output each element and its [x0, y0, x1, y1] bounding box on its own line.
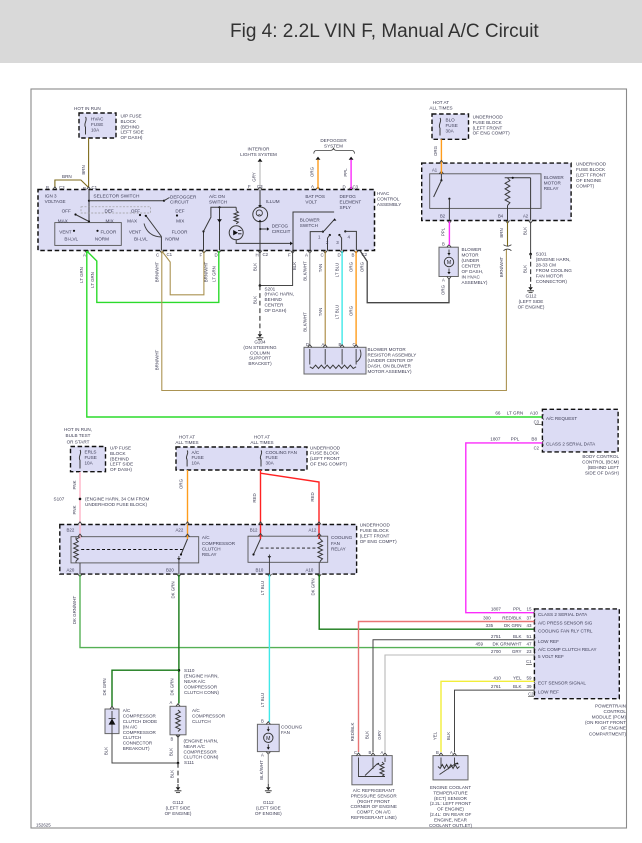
- svg-text:COMPRESSOR: COMPRESSOR: [192, 714, 226, 719]
- svg-text:PRESSURE SENSOR: PRESSURE SENSOR: [351, 793, 398, 798]
- svg-text:COMPRESSOR: COMPRESSOR: [123, 730, 157, 735]
- svg-text:(RIGHT FRONT: (RIGHT FRONT: [357, 799, 390, 804]
- svg-text:BRN: BRN: [499, 228, 504, 237]
- svg-text:BLK/WHT: BLK/WHT: [259, 760, 264, 780]
- svg-text:(2.4L: ON REAR OF: (2.4L: ON REAR OF: [430, 812, 472, 817]
- svg-text:G112: G112: [263, 800, 274, 805]
- svg-text:BLK: BLK: [169, 748, 174, 756]
- svg-text:BRN/WHT: BRN/WHT: [154, 349, 159, 370]
- svg-text:B2: B2: [440, 214, 446, 219]
- svg-text:TEMPERATURE: TEMPERATURE: [433, 790, 467, 795]
- svg-text:FUSE BLOCK: FUSE BLOCK: [576, 167, 606, 172]
- svg-text:A: A: [261, 753, 264, 758]
- svg-text:RED/BLK: RED/BLK: [350, 723, 355, 742]
- svg-text:152625: 152625: [36, 823, 51, 828]
- svg-text:459: 459: [475, 642, 483, 647]
- svg-text:10A: 10A: [192, 460, 201, 465]
- svg-text:MIX: MIX: [106, 218, 114, 223]
- svg-text:28-33 CM: 28-33 CM: [536, 263, 556, 268]
- svg-text:S110: S110: [184, 668, 195, 673]
- svg-text:PPL: PPL: [441, 227, 446, 236]
- svg-text:UNDERHOOD: UNDERHOOD: [310, 445, 341, 450]
- svg-text:HOT AT: HOT AT: [179, 435, 195, 440]
- svg-text:ORG: ORG: [360, 261, 365, 272]
- svg-text:CONNECTOR: CONNECTOR: [123, 741, 153, 746]
- svg-text:39: 39: [526, 684, 532, 689]
- svg-text:ALL TIMES: ALL TIMES: [175, 440, 198, 445]
- svg-text:MOTOR: MOTOR: [544, 181, 562, 186]
- svg-text:LT GRN: LT GRN: [79, 267, 84, 283]
- svg-text:ILLUM: ILLUM: [266, 199, 280, 204]
- svg-text:SIDE OF DASH): SIDE OF DASH): [585, 470, 619, 475]
- svg-text:DEFOGGER: DEFOGGER: [320, 138, 347, 143]
- svg-text:MOTOR: MOTOR: [462, 253, 480, 258]
- svg-text:COOLING: COOLING: [281, 724, 303, 729]
- svg-text:S101: S101: [536, 252, 547, 257]
- svg-text:HVAC: HVAC: [377, 191, 390, 196]
- svg-text:F: F: [288, 253, 291, 258]
- svg-text:PNK: PNK: [72, 505, 77, 514]
- svg-text:CLUTCH CONN): CLUTCH CONN): [184, 755, 219, 760]
- svg-text:M: M: [447, 260, 451, 266]
- svg-text:A: A: [83, 253, 86, 258]
- svg-text:B22: B22: [67, 528, 75, 533]
- svg-text:SWITCH: SWITCH: [300, 223, 318, 228]
- svg-text:BRN/WHT: BRN/WHT: [203, 261, 208, 282]
- svg-text:(LEFT FRONT: (LEFT FRONT: [310, 456, 340, 461]
- svg-text:A: A: [381, 750, 384, 755]
- svg-text:FUSE: FUSE: [91, 122, 103, 127]
- svg-text:ORG: ORG: [179, 478, 184, 489]
- svg-text:A: A: [305, 253, 308, 258]
- svg-text:(ENGINE HARN,: (ENGINE HARN,: [184, 739, 219, 744]
- svg-text:BLOCK: BLOCK: [110, 451, 127, 456]
- svg-text:YEL: YEL: [513, 675, 522, 680]
- svg-text:HOT IN RUN,: HOT IN RUN,: [64, 427, 92, 432]
- svg-text:M: M: [266, 736, 270, 742]
- svg-text:CLUTCH CONN): CLUTCH CONN): [184, 690, 219, 695]
- svg-text:LOW REF: LOW REF: [538, 689, 559, 694]
- svg-text:BLO: BLO: [446, 118, 456, 123]
- svg-text:OR START: OR START: [67, 439, 90, 444]
- svg-text:30A: 30A: [446, 128, 455, 133]
- svg-text:FUSE: FUSE: [446, 123, 458, 128]
- svg-text:ERLS: ERLS: [85, 450, 97, 455]
- svg-text:D: D: [343, 185, 346, 190]
- svg-text:LEFT SIDE: LEFT SIDE: [110, 462, 133, 467]
- svg-text:CIRCUIT: CIRCUIT: [272, 229, 291, 234]
- svg-text:TAN: TAN: [318, 264, 323, 272]
- svg-text:BRN/WHT: BRN/WHT: [154, 261, 159, 282]
- svg-text:PPL: PPL: [511, 436, 520, 441]
- svg-text:CORNER OF ENGINE: CORNER OF ENGINE: [350, 804, 396, 809]
- svg-text:ORG: ORG: [349, 305, 354, 316]
- svg-text:(ENGINE HARN,: (ENGINE HARN,: [184, 674, 219, 679]
- svg-text:HOT IN RUN: HOT IN RUN: [74, 106, 101, 111]
- svg-text:S111: S111: [184, 760, 194, 765]
- svg-text:BLK/WHT: BLK/WHT: [302, 312, 307, 332]
- svg-text:ALL TIMES: ALL TIMES: [250, 440, 273, 445]
- svg-text:A/C PRESS SENSOR SIG: A/C PRESS SENSOR SIG: [538, 621, 593, 626]
- svg-text:PNK: PNK: [72, 480, 77, 489]
- svg-text:UNDERHOOD: UNDERHOOD: [576, 162, 607, 167]
- svg-text:LT BLU: LT BLU: [260, 693, 265, 707]
- svg-text:S107: S107: [54, 497, 65, 502]
- svg-text:INTERIOR: INTERIOR: [248, 147, 271, 152]
- svg-text:OF ENG COMPT): OF ENG COMPT): [310, 462, 347, 467]
- svg-text:BLOCK: BLOCK: [121, 119, 138, 124]
- svg-text:ORG: ORG: [310, 166, 315, 177]
- svg-text:GRY: GRY: [252, 172, 257, 182]
- svg-text:(LEFT SIDE: (LEFT SIDE: [519, 299, 544, 304]
- svg-text:FAN: FAN: [331, 541, 340, 546]
- svg-text:(ON STEERING: (ON STEERING: [243, 345, 277, 350]
- svg-text:VOLTAGE: VOLTAGE: [45, 199, 66, 204]
- svg-text:BULB TEST: BULB TEST: [66, 433, 91, 438]
- svg-text:10A: 10A: [85, 460, 94, 465]
- svg-text:CLUTCH: CLUTCH: [123, 735, 142, 740]
- svg-text:BREAKOUT): BREAKOUT): [123, 746, 150, 751]
- svg-text:FUSE: FUSE: [266, 455, 278, 460]
- svg-text:ASSEMBLY: ASSEMBLY: [377, 202, 401, 207]
- svg-text:MIX: MIX: [176, 218, 184, 223]
- svg-text:REFRIGERANT LINE): REFRIGERANT LINE): [351, 815, 397, 820]
- svg-text:DEFOGGER: DEFOGGER: [170, 194, 197, 199]
- svg-text:LT BLU: LT BLU: [335, 305, 340, 319]
- svg-text:FUSE BLOCK: FUSE BLOCK: [473, 120, 503, 125]
- svg-text:2751: 2751: [491, 634, 502, 639]
- svg-text:COMPARTMENT): COMPARTMENT): [589, 731, 627, 736]
- svg-text:B: B: [352, 253, 355, 258]
- svg-text:(ENGINE HARN,: (ENGINE HARN,: [536, 257, 571, 262]
- svg-text:G112: G112: [173, 800, 184, 805]
- svg-text:B: B: [369, 750, 372, 755]
- svg-text:U/P FUSE: U/P FUSE: [121, 114, 142, 119]
- svg-text:RED: RED: [252, 493, 257, 502]
- svg-text:BLOWER: BLOWER: [544, 175, 565, 180]
- svg-text:GRY: GRY: [377, 730, 382, 740]
- svg-text:FUSE: FUSE: [85, 455, 97, 460]
- svg-text:SUPPORT: SUPPORT: [249, 356, 271, 361]
- svg-text:(IN A/C: (IN A/C: [123, 724, 138, 729]
- svg-text:B12: B12: [250, 528, 258, 533]
- svg-text:OF DASH,: OF DASH,: [462, 269, 484, 274]
- svg-text:B10: B10: [256, 567, 264, 572]
- svg-text:C: C: [353, 342, 356, 347]
- svg-text:G204: G204: [254, 340, 266, 345]
- svg-text:BLK: BLK: [104, 747, 109, 755]
- svg-text:(ON RIGHT FRONT: (ON RIGHT FRONT: [585, 720, 626, 725]
- svg-text:FUSE BLOCK: FUSE BLOCK: [360, 528, 390, 533]
- svg-text:ELEMENT: ELEMENT: [340, 199, 362, 204]
- svg-text:PPL: PPL: [343, 168, 348, 177]
- svg-text:OF ENGINE: OF ENGINE: [601, 726, 626, 731]
- svg-text:COOLING: COOLING: [331, 535, 353, 540]
- svg-text:10A: 10A: [91, 127, 100, 132]
- svg-text:A: A: [170, 700, 173, 705]
- svg-text:CLASS 2 SERIAL DATA: CLASS 2 SERIAL DATA: [538, 612, 588, 617]
- svg-text:OFF: OFF: [131, 208, 140, 213]
- svg-text:IN HVAC: IN HVAC: [462, 275, 481, 280]
- svg-text:OF DASH): OF DASH): [265, 308, 287, 313]
- svg-text:59: 59: [526, 675, 532, 680]
- svg-text:BLK: BLK: [292, 262, 297, 270]
- svg-text:ORG: ORG: [349, 261, 354, 272]
- svg-text:H: H: [256, 253, 259, 258]
- svg-text:IGN 3: IGN 3: [45, 193, 57, 198]
- svg-text:RELAY: RELAY: [331, 546, 346, 551]
- svg-text:BLK: BLK: [252, 263, 257, 271]
- svg-text:A/C: A/C: [202, 535, 210, 540]
- svg-text:A/C ON: A/C ON: [209, 194, 225, 199]
- svg-text:BRACKET): BRACKET): [248, 361, 272, 366]
- svg-text:MOTOR ASSEMBLY): MOTOR ASSEMBLY): [368, 369, 412, 374]
- svg-text:G112: G112: [526, 294, 537, 299]
- svg-text:ORG: ORG: [441, 284, 446, 295]
- svg-text:23: 23: [526, 649, 532, 654]
- svg-text:VENT: VENT: [129, 230, 141, 235]
- svg-text:43: 43: [526, 623, 532, 628]
- svg-text:OFF: OFF: [62, 208, 71, 213]
- svg-text:D: D: [306, 342, 309, 347]
- svg-text:BRN/WHT: BRN/WHT: [499, 256, 504, 277]
- svg-text:VENT: VENT: [59, 230, 71, 235]
- svg-text:DK GRN/WHT: DK GRN/WHT: [72, 596, 77, 625]
- svg-text:B20: B20: [166, 567, 174, 572]
- svg-text:BLK: BLK: [170, 770, 175, 778]
- svg-text:PPL: PPL: [513, 607, 522, 612]
- svg-text:SELECTOR SWITCH: SELECTOR SWITCH: [93, 194, 140, 200]
- svg-text:BLK: BLK: [523, 265, 528, 273]
- svg-text:C: C: [321, 253, 324, 258]
- svg-text:5 VOLT REF: 5 VOLT REF: [538, 654, 564, 659]
- svg-text:F: F: [200, 253, 203, 258]
- svg-text:RESISTOR ASSEMBLY: RESISTOR ASSEMBLY: [368, 352, 417, 357]
- svg-text:RED: RED: [310, 492, 315, 501]
- svg-text:CONNECTOR): CONNECTOR): [536, 279, 568, 284]
- svg-text:CIRCUIT: CIRCUIT: [170, 200, 189, 205]
- svg-text:COOLING FAN RLY CTRL: COOLING FAN RLY CTRL: [538, 628, 593, 633]
- svg-text:335: 335: [486, 623, 494, 628]
- svg-text:(LEFT FRONT: (LEFT FRONT: [360, 533, 390, 538]
- svg-text:(2.2L: LEFT FRONT: (2.2L: LEFT FRONT: [430, 801, 471, 806]
- svg-text:HOT AT: HOT AT: [254, 435, 270, 440]
- svg-text:COMPRESSOR: COMPRESSOR: [202, 541, 236, 546]
- svg-text:FUSE: FUSE: [192, 455, 204, 460]
- svg-text:NORM: NORM: [165, 236, 179, 241]
- svg-text:LT GRN: LT GRN: [507, 411, 523, 416]
- svg-text:(BEHIND: (BEHIND: [110, 456, 130, 461]
- svg-text:(UNDER: (UNDER: [462, 258, 481, 263]
- svg-text:A/C REFRIGERANT: A/C REFRIGERANT: [353, 788, 395, 793]
- svg-text:C2: C2: [263, 252, 269, 257]
- svg-text:GRY: GRY: [512, 649, 522, 654]
- svg-text:COMPT): COMPT): [576, 184, 595, 189]
- svg-text:FAN: FAN: [281, 730, 290, 735]
- svg-text:BLK: BLK: [365, 731, 370, 739]
- svg-text:A22: A22: [176, 528, 184, 533]
- svg-text:BLK: BLK: [513, 684, 522, 689]
- svg-text:BEHIND: BEHIND: [265, 297, 283, 302]
- svg-text:A/C: A/C: [192, 450, 200, 455]
- svg-text:A20: A20: [67, 567, 75, 572]
- svg-text:37: 37: [526, 616, 532, 621]
- svg-text:FAN MOTOR: FAN MOTOR: [536, 274, 564, 279]
- svg-text:A/C: A/C: [192, 708, 200, 713]
- svg-text:BLOWER: BLOWER: [300, 217, 321, 222]
- svg-text:OF ENGINE): OF ENGINE): [165, 811, 192, 816]
- svg-text:COLUMN: COLUMN: [250, 350, 270, 355]
- svg-text:C1: C1: [167, 252, 173, 257]
- svg-text:COOLANT OUTLET): COOLANT OUTLET): [429, 823, 473, 828]
- svg-text:(BEHIND LEFT: (BEHIND LEFT: [588, 465, 620, 470]
- svg-text:ASSEMBLY): ASSEMBLY): [462, 280, 488, 285]
- svg-text:2700: 2700: [491, 649, 502, 654]
- svg-text:D: D: [215, 253, 218, 258]
- svg-text:MAX: MAX: [127, 218, 137, 223]
- svg-text:DEF: DEF: [175, 208, 184, 213]
- svg-text:A: A: [322, 342, 325, 347]
- svg-text:U/P FUSE: U/P FUSE: [110, 446, 131, 451]
- svg-text:(LEFT SIDE: (LEFT SIDE: [166, 805, 191, 810]
- svg-text:MODULE (PCM): MODULE (PCM): [592, 715, 627, 720]
- svg-text:A10: A10: [306, 567, 314, 572]
- svg-text:NEAR A/C: NEAR A/C: [184, 744, 206, 749]
- svg-text:YEL: YEL: [433, 731, 438, 740]
- svg-text:CONTROL: CONTROL: [377, 196, 400, 201]
- svg-text:2761: 2761: [491, 684, 502, 689]
- svg-text:ALL TIMES: ALL TIMES: [429, 106, 452, 111]
- svg-text:CENTER: CENTER: [462, 264, 482, 269]
- svg-text:ENGINE, NEAR: ENGINE, NEAR: [434, 817, 468, 822]
- svg-text:A1: A1: [432, 168, 438, 173]
- svg-text:F: F: [248, 184, 251, 189]
- svg-text:COOLING FAN: COOLING FAN: [266, 450, 297, 455]
- svg-text:VOLT: VOLT: [305, 199, 317, 204]
- svg-text:(ECT) SENSOR: (ECT) SENSOR: [434, 796, 468, 801]
- svg-text:OF ENGINE): OF ENGINE): [518, 305, 545, 310]
- svg-text:SPLY: SPLY: [340, 205, 351, 210]
- svg-text:OF DASH): OF DASH): [121, 135, 143, 140]
- svg-text:S201: S201: [265, 286, 276, 291]
- svg-text:OF ENGINE): OF ENGINE): [255, 811, 282, 816]
- svg-text:C2: C2: [528, 691, 534, 696]
- svg-text:B: B: [339, 342, 342, 347]
- svg-text:51: 51: [526, 634, 532, 639]
- svg-text:UNDERHOOD: UNDERHOOD: [473, 115, 504, 120]
- svg-text:CONTROL: CONTROL: [604, 709, 627, 714]
- svg-text:ECT SENSOR SIGNAL: ECT SENSOR SIGNAL: [538, 681, 586, 686]
- svg-text:LT GRN: LT GRN: [212, 266, 217, 282]
- svg-text:DK GRN: DK GRN: [504, 623, 522, 628]
- svg-text:A: A: [311, 184, 314, 189]
- svg-text:A/C: A/C: [123, 708, 131, 713]
- svg-text:DEF: DEF: [105, 208, 114, 213]
- svg-text:LEFT SIDE: LEFT SIDE: [121, 130, 144, 135]
- svg-text:A12: A12: [309, 528, 317, 533]
- svg-text:DK GRN: DK GRN: [170, 581, 175, 598]
- svg-text:FUSE BLOCK: FUSE BLOCK: [310, 451, 340, 456]
- svg-text:CENTER: CENTER: [265, 303, 285, 308]
- svg-text:BLK: BLK: [446, 732, 451, 740]
- svg-text:DK GRN/WHT: DK GRN/WHT: [493, 642, 522, 647]
- svg-text:15: 15: [526, 607, 532, 612]
- svg-text:OF ENG COMPT): OF ENG COMPT): [360, 539, 397, 544]
- svg-text:A: A: [442, 278, 445, 283]
- svg-text:OF DASH): OF DASH): [110, 467, 132, 472]
- svg-text:D: D: [338, 253, 341, 258]
- svg-text:LIGHTS SYSTEM: LIGHTS SYSTEM: [240, 152, 277, 157]
- svg-text:(HVAC HARN,: (HVAC HARN,: [265, 292, 295, 297]
- svg-text:DASH, ON BLOWER: DASH, ON BLOWER: [368, 363, 412, 368]
- svg-text:410: 410: [493, 675, 501, 680]
- svg-text:C1: C1: [526, 659, 532, 664]
- svg-text:BRN: BRN: [62, 174, 72, 179]
- svg-text:TAN: TAN: [318, 308, 323, 316]
- svg-text:OF ENGINE): OF ENGINE): [437, 807, 464, 812]
- svg-text:SWITCH: SWITCH: [209, 200, 227, 205]
- svg-text:30A: 30A: [266, 460, 275, 465]
- svg-text:ORG: ORG: [433, 145, 438, 156]
- svg-text:COMPT, ON A/C: COMPT, ON A/C: [357, 810, 392, 815]
- svg-text:(ENGINE HARN, 34 CM FROM: (ENGINE HARN, 34 CM FROM: [85, 497, 149, 502]
- svg-text:MAX: MAX: [58, 218, 68, 223]
- svg-text:RED/BLK: RED/BLK: [502, 616, 521, 621]
- svg-text:C3: C3: [257, 184, 263, 189]
- svg-text:BRN: BRN: [81, 165, 86, 174]
- svg-text:LT BLU: LT BLU: [260, 581, 265, 595]
- svg-text:DEFOG: DEFOG: [272, 223, 289, 228]
- svg-text:A/C REQUEST: A/C REQUEST: [546, 416, 577, 421]
- svg-text:BODY CONTROL: BODY CONTROL: [582, 454, 619, 459]
- svg-text:SYSTEM: SYSTEM: [324, 143, 343, 148]
- svg-text:DEFOG: DEFOG: [340, 194, 357, 199]
- svg-text:FLOOR: FLOOR: [101, 230, 118, 235]
- svg-text:UNDERHOOD FUSE BLOCK): UNDERHOOD FUSE BLOCK): [85, 502, 147, 507]
- svg-text:BAT POS: BAT POS: [305, 194, 325, 199]
- svg-text:BLOWER MOTOR: BLOWER MOTOR: [368, 347, 407, 352]
- svg-text:FLOOR: FLOOR: [172, 230, 189, 235]
- svg-text:NORM: NORM: [95, 236, 109, 241]
- svg-text:OF ENG COMPT): OF ENG COMPT): [473, 131, 510, 136]
- svg-text:UNDERHOOD: UNDERHOOD: [360, 522, 391, 527]
- svg-text:A10: A10: [530, 411, 539, 416]
- svg-text:LT BLU: LT BLU: [335, 263, 340, 277]
- svg-text:COMPRESSOR: COMPRESSOR: [184, 749, 218, 754]
- svg-text:HOT AT: HOT AT: [433, 100, 449, 105]
- svg-text:DK GRN: DK GRN: [170, 678, 175, 695]
- svg-text:1807: 1807: [490, 436, 501, 441]
- svg-text:RELAY: RELAY: [544, 186, 559, 191]
- svg-text:LOW REF: LOW REF: [538, 639, 559, 644]
- svg-text:NEAR A/C: NEAR A/C: [184, 679, 206, 684]
- svg-text:CLUTCH DIODE: CLUTCH DIODE: [123, 719, 157, 724]
- svg-text:C2: C2: [534, 446, 540, 451]
- svg-text:66: 66: [495, 411, 501, 416]
- svg-text:CLASS 2 SERIAL DATA: CLASS 2 SERIAL DATA: [546, 441, 596, 446]
- svg-text:RELAY: RELAY: [202, 552, 217, 557]
- svg-text:A/C COMP CLUTCH RELAY: A/C COMP CLUTCH RELAY: [538, 647, 597, 652]
- svg-text:COMPRESSOR: COMPRESSOR: [184, 685, 218, 690]
- svg-text:300: 300: [483, 616, 491, 621]
- svg-text:BLK/WHT: BLK/WHT: [302, 261, 307, 281]
- svg-text:POWERTRAIN: POWERTRAIN: [595, 703, 626, 708]
- svg-text:B: B: [442, 242, 445, 247]
- svg-text:B8: B8: [531, 436, 537, 441]
- svg-text:C: C: [354, 750, 357, 755]
- svg-text:CLUTCH: CLUTCH: [192, 719, 211, 724]
- svg-text:DK GRN: DK GRN: [311, 578, 316, 595]
